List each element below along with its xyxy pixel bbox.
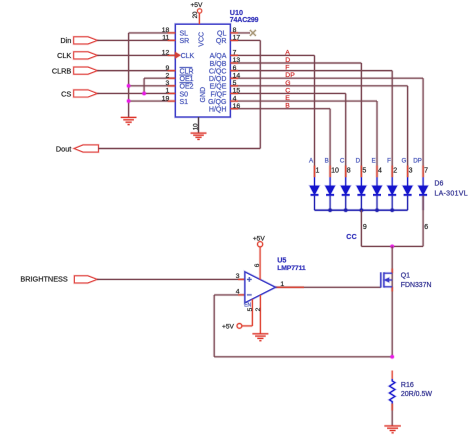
svg-text:4: 4 — [233, 95, 237, 102]
svg-text:CLK: CLK — [181, 53, 195, 60]
svg-text:FDN337N: FDN337N — [401, 282, 432, 289]
svg-text:19: 19 — [162, 95, 170, 102]
svg-text:B: B — [285, 103, 290, 110]
svg-text:16: 16 — [233, 103, 241, 110]
svg-text:6: 6 — [254, 263, 261, 267]
svg-text:17: 17 — [233, 35, 241, 42]
svg-text:CLRB: CLRB — [52, 66, 72, 75]
svg-text:G: G — [285, 80, 290, 87]
svg-text:Q1: Q1 — [401, 273, 410, 280]
svg-text:E/QE: E/QE — [210, 84, 227, 91]
svg-text:A/QA: A/QA — [210, 53, 227, 60]
svg-text:4: 4 — [236, 289, 240, 296]
svg-text:7: 7 — [424, 168, 428, 175]
svg-text:G/QG: G/QG — [208, 99, 226, 106]
svg-text:QR: QR — [216, 38, 227, 45]
svg-text:F: F — [387, 158, 391, 165]
svg-text:E: E — [285, 95, 290, 102]
svg-text:C: C — [340, 158, 345, 165]
svg-text:8: 8 — [347, 168, 351, 175]
svg-text:B: B — [325, 158, 329, 165]
svg-text:D: D — [285, 57, 290, 64]
svg-text:GND: GND — [200, 87, 207, 103]
svg-text:BRIGHTNESS: BRIGHTNESS — [20, 274, 68, 283]
svg-text:3: 3 — [166, 80, 170, 87]
svg-text:7: 7 — [233, 50, 237, 57]
svg-text:9: 9 — [363, 224, 367, 231]
svg-text:G: G — [401, 158, 406, 165]
svg-text:A: A — [285, 49, 290, 56]
svg-text:12: 12 — [162, 50, 170, 57]
svg-text:EN: EN — [244, 303, 251, 309]
svg-text:LA-301VL: LA-301VL — [434, 191, 468, 198]
svg-text:3: 3 — [236, 273, 240, 280]
svg-text:4: 4 — [378, 168, 382, 175]
svg-text:Din: Din — [60, 36, 71, 45]
svg-text:D: D — [356, 158, 361, 165]
svg-text:2: 2 — [393, 168, 397, 175]
svg-text:1: 1 — [316, 168, 320, 175]
svg-text:D/QD: D/QD — [209, 76, 227, 83]
svg-text:OE2: OE2 — [180, 84, 194, 91]
svg-text:6: 6 — [424, 224, 428, 231]
svg-text:S1: S1 — [180, 99, 189, 106]
svg-text:F: F — [285, 65, 289, 72]
svg-text:20R/0.5W: 20R/0.5W — [401, 391, 433, 398]
svg-text:D6: D6 — [434, 180, 443, 187]
svg-text:13: 13 — [233, 57, 241, 64]
svg-text:9: 9 — [166, 65, 170, 72]
svg-text:10: 10 — [331, 168, 339, 175]
svg-text:VCC: VCC — [198, 32, 205, 47]
svg-text:R16: R16 — [401, 382, 414, 389]
svg-text:5: 5 — [362, 168, 366, 175]
svg-text:LMP7711: LMP7711 — [277, 265, 306, 272]
svg-text:74AC299: 74AC299 — [230, 17, 259, 24]
svg-text:U5: U5 — [277, 255, 286, 264]
svg-text:SL: SL — [180, 31, 189, 38]
svg-text:QL: QL — [217, 31, 226, 38]
svg-text:DP: DP — [285, 72, 295, 79]
svg-text:E: E — [372, 158, 376, 165]
svg-text:C/QC: C/QC — [209, 68, 227, 75]
svg-text:1: 1 — [280, 281, 284, 288]
svg-text:F/QF: F/QF — [210, 91, 226, 98]
svg-text:2: 2 — [166, 72, 170, 79]
svg-text:1: 1 — [166, 88, 170, 95]
svg-text:15: 15 — [233, 88, 241, 95]
svg-text:Dout: Dout — [56, 144, 71, 153]
svg-text:6: 6 — [233, 65, 237, 72]
svg-text:S0: S0 — [180, 91, 189, 98]
svg-text:5: 5 — [233, 80, 237, 87]
svg-text:18: 18 — [162, 27, 170, 34]
svg-text:14: 14 — [233, 72, 241, 79]
svg-text:3: 3 — [409, 168, 413, 175]
svg-text:SR: SR — [180, 38, 190, 45]
svg-text:CC: CC — [346, 234, 357, 241]
svg-text:B/QB: B/QB — [210, 61, 227, 68]
svg-text:C: C — [285, 87, 290, 94]
svg-text:CLK: CLK — [57, 51, 71, 60]
svg-text:2: 2 — [255, 307, 262, 311]
svg-text:20: 20 — [192, 11, 199, 18]
svg-text:DP: DP — [413, 158, 422, 165]
svg-text:H/QH: H/QH — [209, 106, 227, 113]
svg-text:+5V: +5V — [222, 323, 235, 330]
svg-text:8: 8 — [233, 27, 237, 34]
svg-text:10: 10 — [192, 123, 199, 130]
svg-text:U10: U10 — [230, 8, 243, 17]
svg-text:11: 11 — [162, 35, 169, 42]
svg-text:CS: CS — [61, 89, 71, 98]
